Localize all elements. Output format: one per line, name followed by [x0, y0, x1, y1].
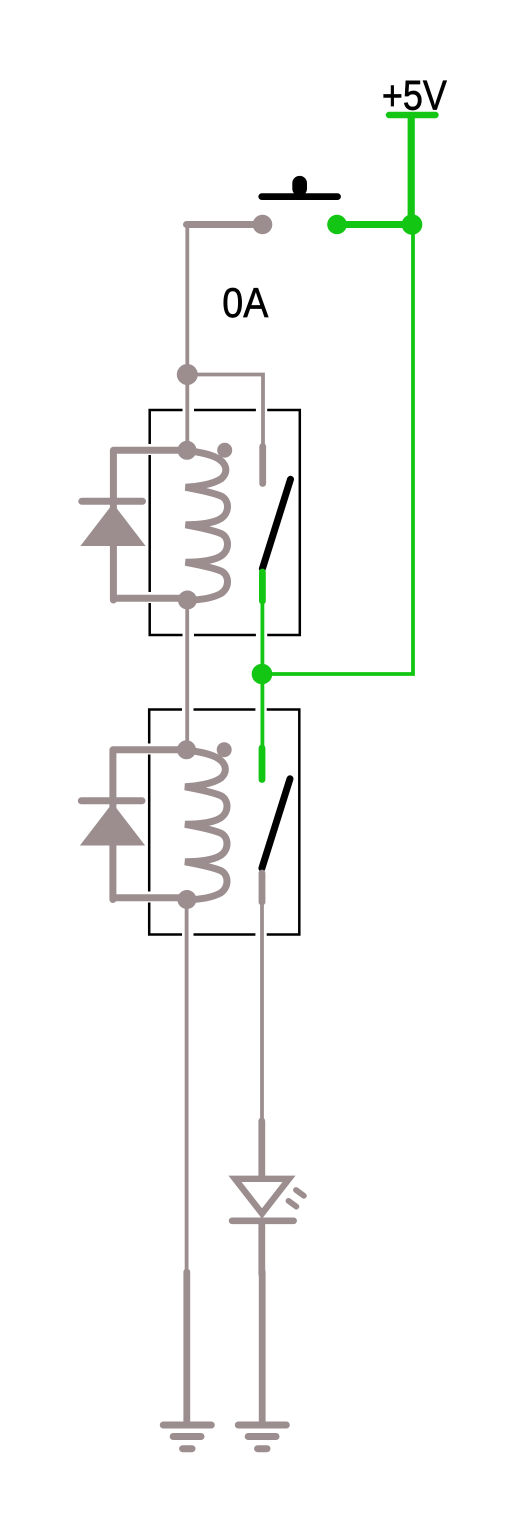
svg-text:+5V: +5V: [382, 71, 447, 119]
svg-text:0A: 0A: [222, 279, 268, 327]
